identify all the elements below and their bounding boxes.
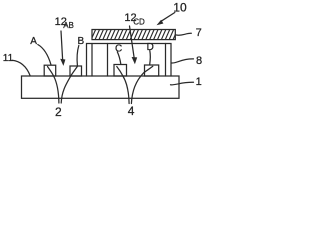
- leader for label 8: [171, 59, 193, 63]
- svg-text:2: 2: [55, 105, 62, 119]
- svg-text:4: 4: [128, 104, 135, 118]
- svg-text:D: D: [147, 42, 154, 53]
- svg-text:B: B: [78, 36, 85, 47]
- arrow 10: [161, 13, 175, 22]
- svg-text:C: C: [115, 43, 122, 54]
- wire: lead from A to node 2: [48, 67, 59, 104]
- arrow 12CD: [130, 26, 135, 58]
- cap layer 7 hatched band: [87, 29, 178, 40]
- arrowhead 10: [157, 20, 164, 26]
- wire: lead from C to node 4: [117, 67, 129, 104]
- leader for label C: [117, 52, 121, 64]
- electrode D: [145, 65, 159, 76]
- svg-text:8: 8: [196, 55, 202, 67]
- svg-text:AB: AB: [63, 21, 74, 30]
- arrow 12AB: [61, 31, 63, 59]
- layer 8 block outline: [87, 44, 172, 77]
- leader for label D: [149, 51, 152, 65]
- leader for label 11: [12, 60, 30, 76]
- svg-text:7: 7: [196, 27, 202, 39]
- svg-text:1: 1: [196, 76, 202, 88]
- wire: lead from B to node 2: [61, 66, 77, 103]
- wire: block inner vertical left1: [91, 44, 93, 77]
- leader for label A: [38, 45, 51, 65]
- svg-text:11: 11: [3, 53, 14, 64]
- wire: lead from D to node 4: [131, 66, 152, 103]
- svg-text:10: 10: [173, 1, 187, 15]
- wire: block inner vertical left2: [107, 44, 109, 77]
- arrowhead 12CD: [132, 57, 138, 64]
- substrate 1: [22, 76, 180, 98]
- arrowhead 12AB: [60, 59, 65, 66]
- svg-text:CD: CD: [133, 17, 145, 26]
- leader for label B: [77, 46, 79, 66]
- electrode C: [114, 65, 127, 77]
- leader for label 7: [176, 33, 192, 35]
- svg-text:A: A: [30, 36, 37, 47]
- leader for label 1: [171, 82, 194, 85]
- electrode A: [44, 65, 56, 76]
- wire: block inner vertical right: [165, 44, 167, 77]
- electrode B: [70, 66, 82, 76]
